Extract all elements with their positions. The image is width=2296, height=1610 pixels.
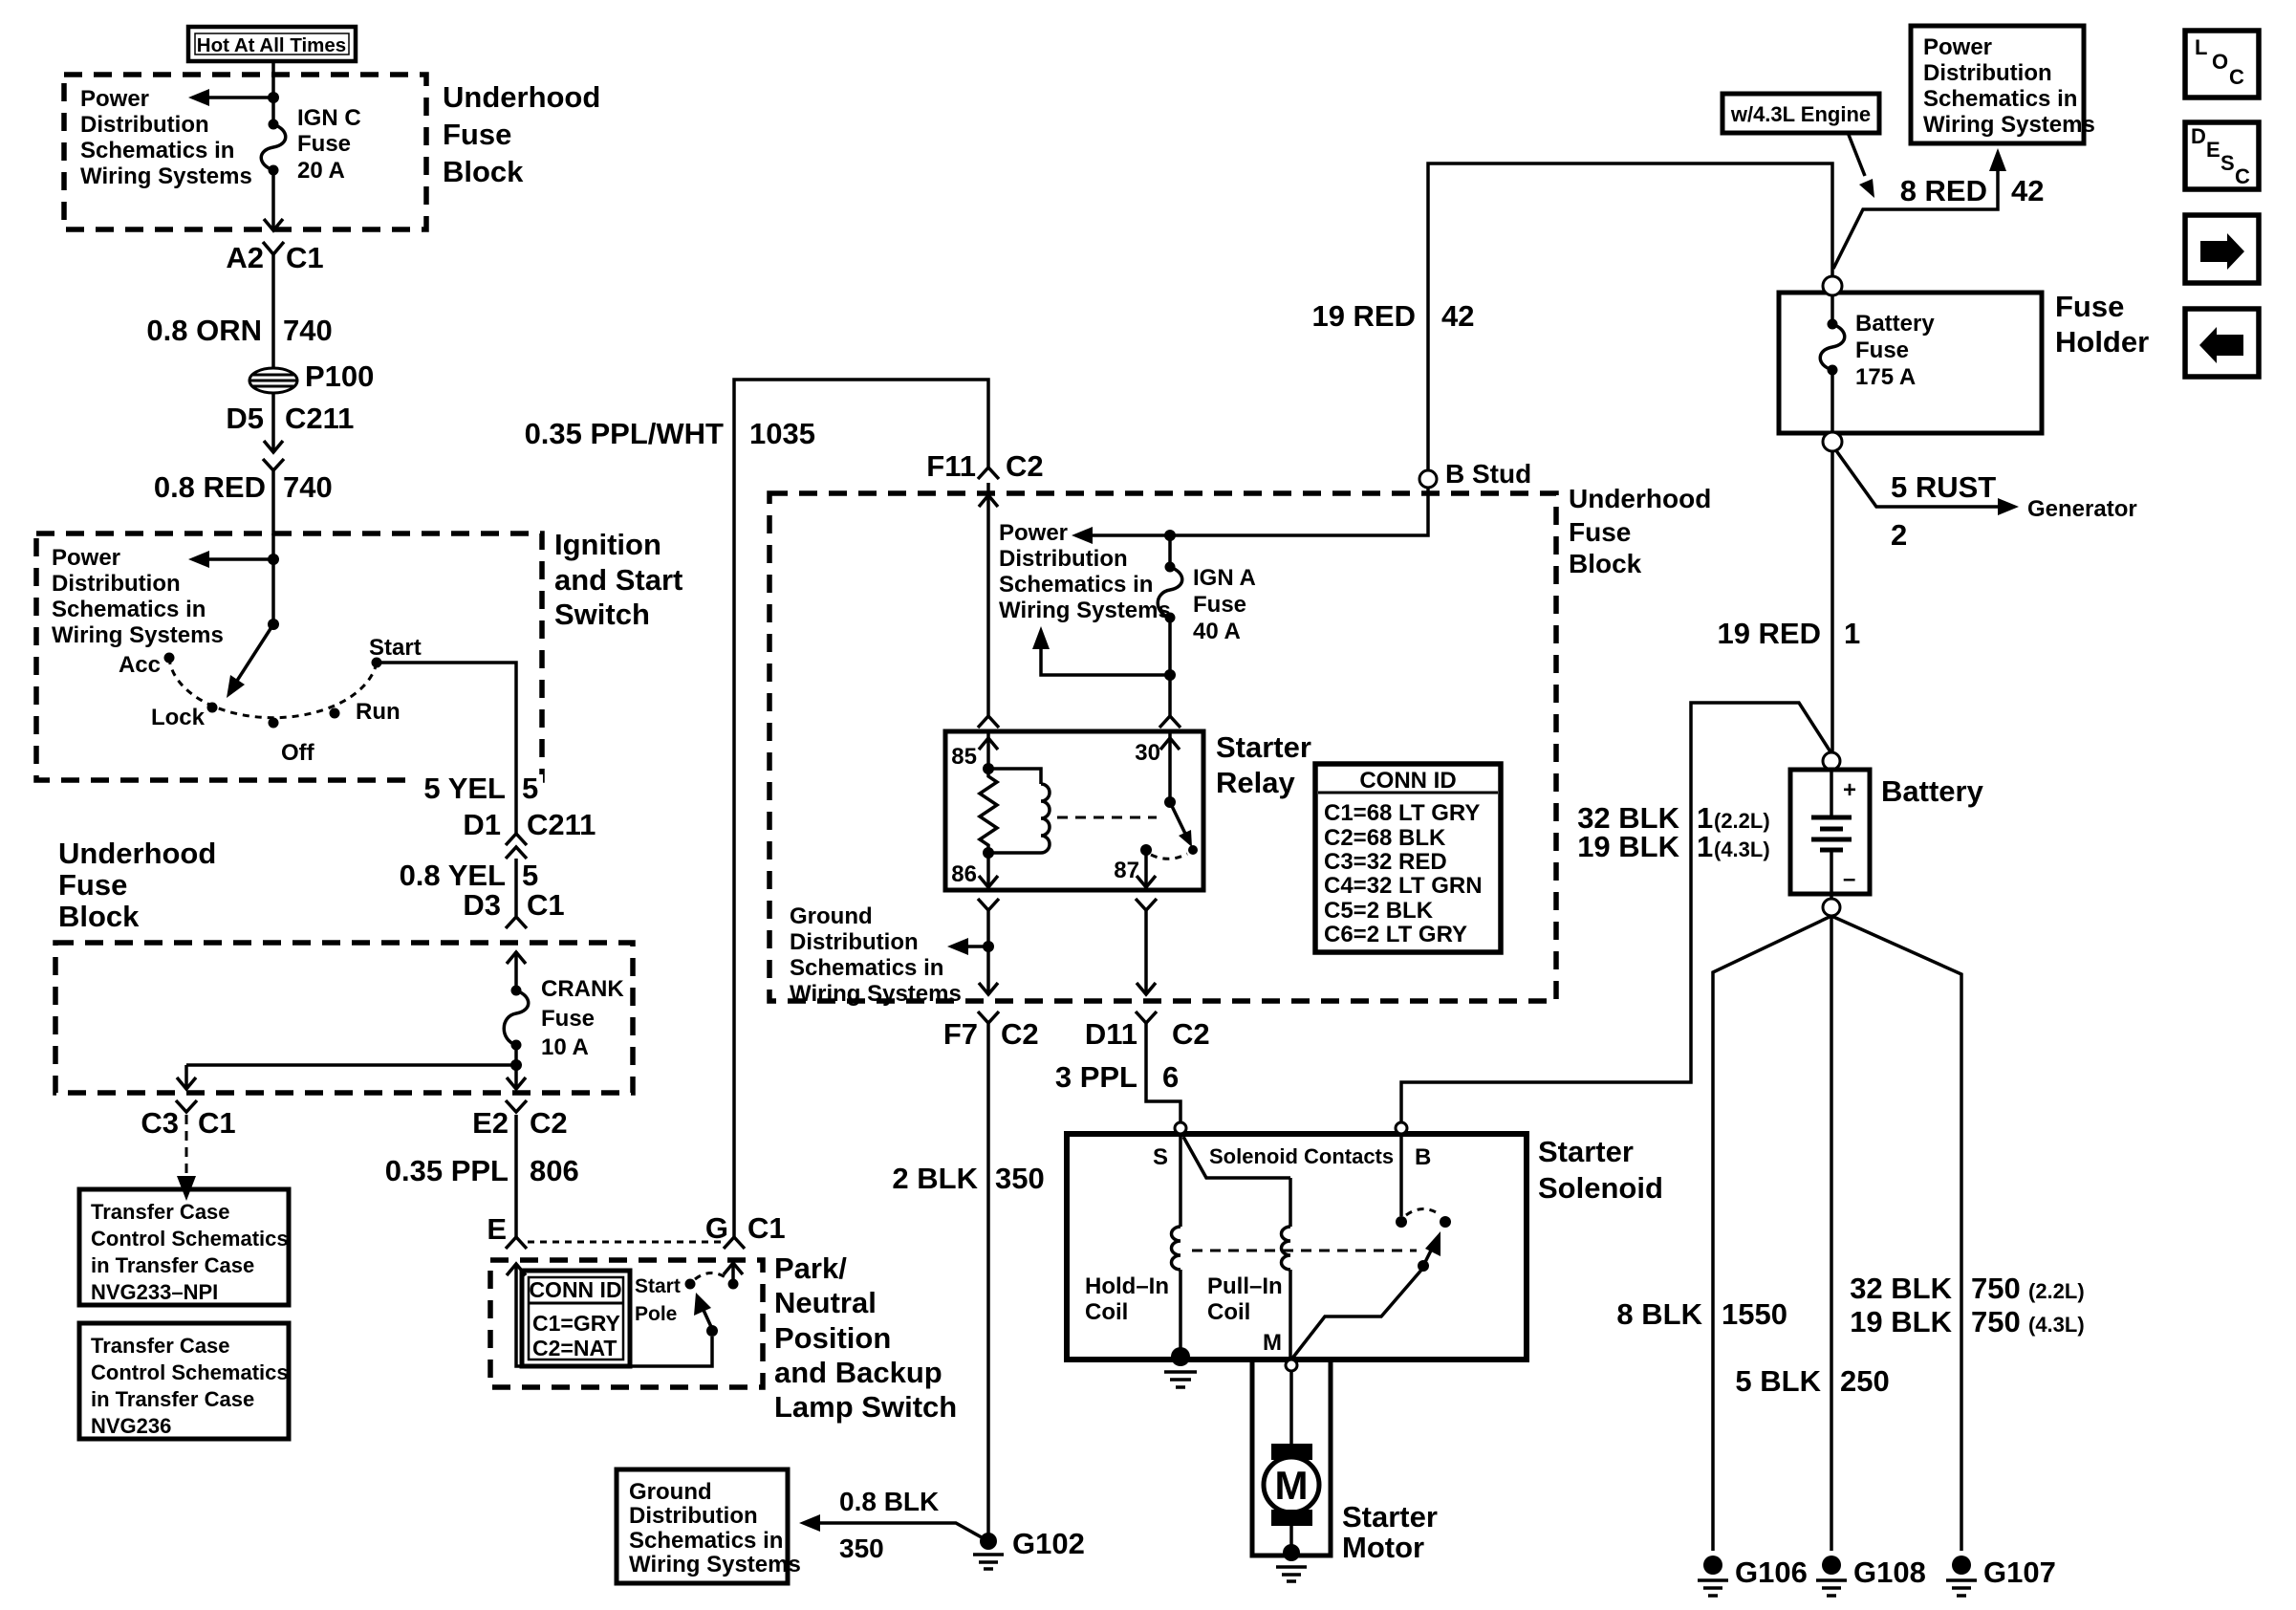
svg-text:Run: Run	[356, 699, 401, 725]
wire 3 PPL 6	[1055, 1023, 1180, 1123]
node: solenoid contact (right)	[1440, 1216, 1451, 1228]
svg-text:Wiring Systems: Wiring Systems	[629, 1552, 801, 1577]
svg-text:8 RED: 8 RED	[1900, 174, 1987, 207]
svg-text:P100: P100	[305, 359, 374, 393]
Battery box	[1790, 770, 1870, 894]
wire 87 to D11	[1144, 910, 1148, 994]
label Start Pole	[635, 1275, 681, 1325]
svg-text:87: 87	[1114, 858, 1139, 883]
arrow down at block edge (right branch)	[507, 1077, 526, 1089]
svg-text:Wiring Systems: Wiring Systems	[1923, 112, 2095, 138]
svg-text:Distribution: Distribution	[999, 546, 1128, 572]
svg-text:IGN C: IGN C	[297, 105, 361, 131]
svg-text:Underhood: Underhood	[443, 80, 600, 114]
svg-text:C4=32 LT GRN: C4=32 LT GRN	[1324, 873, 1483, 899]
svg-text:Transfer Case: Transfer Case	[91, 1334, 230, 1358]
svg-text:Start: Start	[635, 1275, 681, 1297]
svg-text:5 RUST: 5 RUST	[1891, 470, 1996, 504]
starter motor symbol	[1264, 1444, 1319, 1526]
svg-text:Distribution: Distribution	[80, 112, 209, 138]
svg-text:C1=68 LT GRY: C1=68 LT GRY	[1324, 800, 1480, 826]
svg-text:0.35 PPL/WHT: 0.35 PPL/WHT	[525, 417, 724, 450]
connector F7 C2	[943, 1012, 1039, 1051]
label Fuse Holder	[2055, 290, 2149, 359]
Fuse Holder box	[1779, 293, 2042, 433]
solenoid hold-in coil	[1085, 1134, 1180, 1354]
connector chevron below relay 86	[978, 899, 999, 910]
svg-text:Start: Start	[369, 635, 422, 661]
Underhood Fuse Block (lower-left) dashed box	[55, 943, 633, 1093]
Transfer Case reference box NVG236	[79, 1323, 289, 1439]
svg-text:Fuse: Fuse	[1193, 592, 1246, 618]
svg-text:NVG236: NVG236	[91, 1414, 171, 1438]
G contact arrow up	[724, 1263, 743, 1284]
wire 19 RED 1	[1717, 451, 1860, 752]
arrow at block edge (87 wire)	[1137, 983, 1156, 994]
svg-text:Neutral: Neutral	[774, 1286, 877, 1319]
wire from IGN A fuse	[1168, 618, 1172, 716]
node: moving contact pivot	[706, 1325, 718, 1337]
svg-text:Hold–In: Hold–In	[1085, 1273, 1169, 1299]
wire E into switch with up arrow	[507, 1264, 712, 1366]
svg-text:C5=2 BLK: C5=2 BLK	[1324, 898, 1434, 924]
svg-text:Distribution: Distribution	[1923, 60, 2052, 86]
svg-text:Schematics in: Schematics in	[999, 572, 1153, 598]
svg-text:Fuse: Fuse	[1569, 517, 1631, 547]
svg-text:Wiring Systems: Wiring Systems	[52, 622, 224, 648]
svg-text:Fuse: Fuse	[2055, 290, 2124, 323]
relay terminal 86	[951, 853, 998, 887]
relay resistor	[980, 769, 997, 853]
wire 0.35 PPL 806	[385, 1115, 579, 1237]
node Start	[369, 635, 422, 668]
svg-text:Underhood: Underhood	[58, 837, 216, 870]
dashed travel arc (relay)	[1151, 854, 1187, 859]
connector D5 C211	[226, 393, 354, 470]
svg-text:C2: C2	[1001, 1017, 1039, 1051]
svg-text:D3: D3	[463, 888, 501, 922]
svg-text:C211: C211	[527, 808, 596, 841]
svg-text:Motor: Motor	[1342, 1531, 1424, 1564]
svg-text:C2: C2	[1006, 449, 1044, 483]
svg-text:Off: Off	[281, 740, 315, 766]
solenoid actuation dashed link	[1192, 1250, 1417, 1252]
fuse IGN A 40 A	[1158, 535, 1256, 644]
wire from crank fuse to outputs	[186, 1045, 516, 1088]
svg-text:Power: Power	[1923, 34, 1992, 60]
fuse IGN C 20 A	[261, 105, 360, 184]
wire from B stud to IGN A feed	[1090, 488, 1428, 535]
switch blade arrow (park switch)	[694, 1293, 712, 1329]
svg-text:Wiring Systems: Wiring Systems	[80, 163, 252, 189]
sidebar button LOC	[2185, 31, 2259, 98]
node: crank fuse output junction	[510, 1059, 522, 1071]
svg-text:Park/: Park/	[774, 1251, 847, 1285]
svg-text:Starter: Starter	[1538, 1135, 1634, 1168]
svg-text:Coil: Coil	[1085, 1299, 1128, 1325]
label Underhood Fuse Block (middle)	[1569, 484, 1711, 578]
svg-text:(4.3L): (4.3L)	[1714, 838, 1770, 861]
label Starter Relay	[1216, 730, 1311, 799]
svg-text:F11: F11	[926, 449, 976, 483]
node: G contact	[728, 1279, 739, 1290]
label Underhood Fuse Block (left)	[58, 837, 216, 933]
sidebar button next arrow	[2185, 215, 2259, 283]
svg-text:5: 5	[522, 772, 538, 805]
svg-text:Fuse: Fuse	[541, 1006, 595, 1032]
svg-text:86: 86	[951, 861, 977, 887]
svg-text:E2: E2	[472, 1106, 509, 1140]
reference arrow to power distribution (left)	[188, 89, 273, 106]
svg-text:0.8 ORN: 0.8 ORN	[146, 314, 262, 347]
svg-text:Fuse: Fuse	[1855, 337, 1909, 363]
relay actuation dashed link	[1057, 816, 1157, 819]
node: solenoid fixed contact (B)	[1396, 1216, 1407, 1228]
svg-text:Transfer Case: Transfer Case	[91, 1200, 230, 1224]
node: relay coil top junction	[983, 763, 994, 774]
wire 2 BLK 350	[892, 1023, 1044, 1535]
arrow down at block edge (left branch)	[177, 1077, 196, 1089]
relay terminal 85	[951, 716, 999, 770]
w/4.3L Engine box	[1722, 94, 1879, 133]
svg-text:19 BLK: 19 BLK	[1577, 830, 1679, 863]
svg-text:G106: G106	[1735, 1556, 1808, 1589]
wire M to motor	[1289, 1371, 1293, 1446]
svg-text:Power: Power	[999, 520, 1068, 546]
svg-text:Power: Power	[52, 545, 120, 571]
reference arrow up to power distribution note	[1032, 626, 1170, 675]
svg-text:and Start: and Start	[554, 563, 682, 597]
arrow at block edge (86 wire)	[979, 983, 998, 994]
svg-text:40 A: 40 A	[1193, 619, 1241, 644]
svg-text:32 BLK: 32 BLK	[1850, 1272, 1952, 1305]
connector A2 C1	[226, 241, 323, 274]
node Acc	[119, 652, 175, 678]
svg-text:750: 750	[1971, 1305, 2021, 1338]
note Power Distribution Schematics (middle box)	[999, 520, 1171, 623]
wire into ignition switch	[271, 533, 275, 624]
solenoid moving blade arrow	[1418, 1231, 1440, 1272]
node: switch pivot junction	[268, 619, 279, 630]
svg-text:w/4.3L Engine: w/4.3L Engine	[1730, 102, 1871, 126]
svg-text:Block: Block	[443, 155, 524, 188]
wire B terminal riser to battery	[1401, 703, 1831, 1123]
svg-text:Ignition: Ignition	[554, 528, 661, 561]
wire M terminal to blade	[1291, 1268, 1423, 1360]
svg-text:Coil: Coil	[1207, 1299, 1250, 1325]
svg-text:30: 30	[1135, 740, 1160, 766]
svg-text:CONN ID: CONN ID	[1359, 768, 1456, 794]
svg-text:8 BLK: 8 BLK	[1616, 1297, 1702, 1331]
svg-text:750: 750	[1971, 1272, 2021, 1305]
w/4.3L pointer arrow	[1849, 135, 1874, 198]
svg-text:G102: G102	[1012, 1527, 1085, 1560]
svg-text:175 A: 175 A	[1855, 364, 1916, 390]
node: fuse holder bottom terminal	[1823, 432, 1842, 451]
svg-text:42: 42	[2011, 174, 2044, 207]
svg-text:Solenoid Contacts: Solenoid Contacts	[1209, 1144, 1394, 1168]
connector chevron below relay 87	[1136, 899, 1157, 910]
svg-text:C1: C1	[527, 888, 565, 922]
Underhood Fuse Block (middle) dashed box	[769, 493, 1556, 1001]
svg-text:C2: C2	[530, 1106, 568, 1140]
svg-text:S: S	[2220, 151, 2235, 175]
svg-text:C3=32 RED: C3=32 RED	[1324, 849, 1447, 875]
wire 0.35 PPL/WHT 1035 (long riser)	[525, 380, 988, 1237]
svg-text:E: E	[2206, 138, 2220, 162]
svg-text:Position: Position	[774, 1321, 891, 1355]
connector D1 C211 (double chevron)	[463, 808, 596, 859]
wire 0.8 BLK 350 to G102	[799, 1487, 988, 1563]
svg-text:740: 740	[283, 470, 333, 504]
node: solenoid B terminal	[1396, 1122, 1431, 1170]
svg-text:Solenoid: Solenoid	[1538, 1171, 1663, 1205]
svg-text:Relay: Relay	[1216, 766, 1295, 799]
svg-text:(2.2L): (2.2L)	[2028, 1279, 2085, 1303]
switch actuator arrow toward Lock	[227, 624, 273, 698]
wire 32 BLK 1 / 19 BLK 1 labels	[1577, 801, 1770, 863]
node: junction feed	[268, 554, 279, 565]
svg-text:O: O	[2212, 50, 2228, 74]
wire 5 YEL 5	[417, 772, 543, 805]
svg-text:C2=NAT: C2=NAT	[532, 1336, 617, 1360]
svg-text:CRANK: CRANK	[541, 976, 624, 1002]
svg-text:Power: Power	[80, 86, 149, 112]
svg-text:and Backup: and Backup	[774, 1356, 942, 1389]
node: fuse holder top terminal	[1823, 276, 1842, 295]
svg-text:Lamp Switch: Lamp Switch	[774, 1390, 957, 1424]
solenoid pull-in coil	[1207, 1178, 1290, 1360]
svg-text:D1: D1	[463, 808, 501, 841]
fuse CRANK 10 A	[504, 976, 624, 1060]
ground G107	[1946, 1556, 2056, 1596]
CONN ID box (park/neutral)	[522, 1271, 630, 1366]
svg-text:C1=GRY: C1=GRY	[532, 1311, 620, 1336]
svg-text:Distribution: Distribution	[790, 929, 919, 955]
svg-text:Pull–In: Pull–In	[1207, 1273, 1283, 1299]
svg-text:1: 1	[1844, 617, 1860, 650]
relay terminal 30	[1135, 716, 1180, 802]
svg-text:Fuse: Fuse	[297, 131, 351, 157]
label Starter Motor	[1342, 1500, 1438, 1564]
Park/Neutral Position and Backup Lamp Switch dashed box	[490, 1260, 763, 1387]
svg-text:–: –	[1843, 866, 1855, 892]
svg-text:Schematics in: Schematics in	[52, 597, 206, 622]
relay terminal 87	[1114, 850, 1156, 887]
fuse Battery Fuse 175 A	[1820, 295, 1935, 432]
reference arrow to power distribution (middle box)	[1072, 527, 1093, 544]
node: junction on B stud feed	[1164, 530, 1176, 541]
connector D11 C2	[1085, 1012, 1210, 1051]
svg-text:3 PPL: 3 PPL	[1055, 1060, 1137, 1094]
wire 8 BLK 1550	[1616, 1297, 1787, 1331]
reference arrow to ground distribution note	[947, 938, 988, 955]
svg-text:Schematics in: Schematics in	[1923, 86, 2077, 112]
node: solenoid M terminal	[1263, 1330, 1297, 1371]
svg-text:G107: G107	[1983, 1556, 2056, 1589]
svg-text:85: 85	[951, 744, 977, 770]
note Power Distribution Schematics (top-left)	[80, 86, 252, 189]
node: IGN A output junction	[1164, 669, 1176, 681]
svg-text:C2=68 BLK: C2=68 BLK	[1324, 825, 1446, 851]
svg-text:Control Schematics: Control Schematics	[91, 1360, 289, 1384]
svg-text:B Stud: B Stud	[1445, 459, 1531, 489]
svg-text:Generator: Generator	[2027, 496, 2137, 522]
svg-text:Ground: Ground	[790, 903, 873, 929]
sidebar button prev arrow	[2185, 309, 2259, 377]
Underhood Fuse Block (top-left) dashed box	[64, 75, 426, 229]
svg-text:B: B	[1415, 1144, 1431, 1170]
wire 8 RED 42 with up arrow	[1833, 148, 2044, 269]
wire 5 BLK 250	[1735, 1364, 1889, 1398]
svg-text:C6=2 LT GRY: C6=2 LT GRY	[1324, 922, 1467, 947]
pin G C1	[705, 1211, 786, 1249]
node: relay switch pivot on 30	[1164, 796, 1176, 808]
svg-text:Wiring Systems: Wiring Systems	[790, 981, 962, 1007]
ground at starter motor	[1276, 1526, 1307, 1581]
svg-text:250: 250	[1840, 1364, 1890, 1398]
wire: fuse output with arrow at block edge	[264, 170, 283, 230]
svg-text:2: 2	[1891, 518, 1907, 552]
svg-text:Battery: Battery	[1881, 774, 1984, 808]
svg-text:2 BLK: 2 BLK	[892, 1162, 978, 1195]
wire 5 RUST 2 to Generator	[1835, 449, 2137, 552]
svg-text:C1: C1	[286, 241, 324, 274]
svg-text:Block: Block	[1569, 549, 1642, 578]
svg-text:(2.2L): (2.2L)	[1714, 809, 1770, 833]
svg-text:M: M	[1275, 1463, 1309, 1508]
svg-text:Hot At All Times: Hot At All Times	[197, 34, 346, 56]
wire 0.8 ORN 740	[146, 254, 332, 369]
wire: hot feed from Hot At All Times into fuse block	[271, 59, 275, 124]
svg-text:Starter: Starter	[1216, 730, 1311, 764]
svg-text:0.8 RED: 0.8 RED	[154, 470, 266, 504]
switch position arc (dashed)	[169, 658, 377, 718]
ground at hold-in coil	[1164, 1347, 1197, 1387]
svg-text:19 RED: 19 RED	[1311, 299, 1416, 333]
label Starter Solenoid	[1538, 1135, 1663, 1205]
svg-text:Wiring Systems: Wiring Systems	[999, 598, 1171, 623]
ground G108	[1816, 1556, 1926, 1596]
wire entering crank fuse with up arrow	[507, 951, 526, 990]
svg-text:E: E	[487, 1212, 507, 1246]
svg-text:Schematics in: Schematics in	[80, 138, 234, 163]
svg-text:350: 350	[839, 1534, 884, 1563]
svg-text:1: 1	[1697, 830, 1713, 863]
connector line E-G (thin dashed)	[528, 1241, 723, 1244]
svg-text:D: D	[2191, 124, 2206, 148]
svg-text:D5: D5	[226, 402, 264, 435]
svg-text:Holder: Holder	[2055, 325, 2149, 359]
wire 32 BLK 750 / 19 BLK 750	[1850, 1272, 2085, 1338]
node: battery positive terminal	[1823, 752, 1840, 770]
connector C3 C1	[141, 1100, 235, 1140]
label Ignition and Start Switch	[554, 528, 682, 631]
svg-text:D11: D11	[1085, 1017, 1137, 1051]
svg-text:Lock: Lock	[151, 705, 206, 730]
svg-text:in Transfer Case: in Transfer Case	[91, 1387, 254, 1411]
svg-text:5: 5	[522, 859, 538, 892]
svg-text:F7: F7	[943, 1017, 978, 1051]
connector E2 C2	[472, 1100, 568, 1140]
sidebar button DESC	[2185, 122, 2259, 189]
relay coil	[988, 769, 1050, 853]
Power Distribution Schematics box (top right)	[1911, 26, 2095, 143]
svg-text:Battery: Battery	[1855, 311, 1935, 337]
svg-text:Schematics in: Schematics in	[629, 1528, 783, 1554]
svg-text:NVG233–NPI: NVG233–NPI	[91, 1280, 218, 1304]
node: start pole contact	[685, 1279, 696, 1290]
svg-text:Pole: Pole	[635, 1303, 677, 1325]
svg-text:740: 740	[283, 314, 333, 347]
ground G102	[973, 1527, 1085, 1569]
ground G106	[1698, 1556, 1808, 1596]
svg-text:5 BLK: 5 BLK	[1735, 1364, 1821, 1398]
svg-text:Distribution: Distribution	[52, 571, 181, 597]
svg-text:20 A: 20 A	[297, 158, 345, 184]
svg-text:350: 350	[995, 1162, 1045, 1195]
label Park/Neutral Position and Backup Lamp Switch	[774, 1251, 957, 1424]
node: relay 87 contact	[1140, 844, 1152, 856]
connector D3 C1	[463, 888, 564, 928]
svg-text:C1: C1	[198, 1106, 236, 1140]
svg-text:1035: 1035	[749, 417, 815, 450]
svg-text:Acc: Acc	[119, 652, 161, 678]
wire 0.8 YEL 5	[400, 859, 539, 916]
wire F11 into block with up arrow	[979, 483, 998, 716]
svg-text:C: C	[2235, 164, 2250, 188]
node Run	[330, 699, 401, 725]
svg-text:G108: G108	[1853, 1556, 1926, 1589]
Transfer Case reference box NVG233-NPI	[79, 1189, 289, 1305]
node B Stud	[1311, 163, 1832, 489]
svg-text:Schematics in: Schematics in	[790, 955, 943, 981]
svg-text:+: +	[1843, 777, 1856, 803]
Starter Relay box	[945, 731, 1203, 890]
svg-text:19 RED: 19 RED	[1717, 617, 1821, 650]
node: relay coil bottom junction	[983, 847, 994, 859]
svg-text:6: 6	[1162, 1060, 1179, 1094]
node Off	[269, 718, 315, 767]
svg-text:G: G	[705, 1211, 728, 1245]
wire B terminal to fixed contact	[1399, 1134, 1403, 1216]
svg-text:19 BLK: 19 BLK	[1850, 1305, 1952, 1338]
svg-text:Starter: Starter	[1342, 1500, 1438, 1534]
dashed wire to transfer case reference	[177, 1115, 196, 1201]
dashed travel arc (park switch)	[695, 1273, 728, 1280]
svg-text:C1: C1	[747, 1211, 786, 1245]
svg-text:42: 42	[1441, 299, 1474, 333]
svg-text:Fuse: Fuse	[443, 118, 511, 151]
svg-text:S: S	[1153, 1144, 1168, 1170]
wire 86 to F7	[986, 910, 990, 994]
svg-text:C: C	[2229, 65, 2244, 89]
dashed travel arc (solenoid)	[1406, 1209, 1440, 1216]
svg-text:Underhood: Underhood	[1569, 484, 1711, 513]
pin E	[487, 1212, 527, 1249]
reference arrow to power distribution (ignition box)	[188, 551, 273, 568]
svg-text:(4.3L): (4.3L)	[2028, 1313, 2085, 1337]
svg-text:0.8 YEL: 0.8 YEL	[400, 859, 506, 892]
note Ground Distribution Schematics (middle box)	[790, 903, 962, 1007]
svg-text:10 A: 10 A	[541, 1034, 589, 1060]
svg-text:Fuse: Fuse	[58, 868, 127, 902]
svg-text:M: M	[1263, 1330, 1282, 1356]
CONN ID table (underhood fuse block)	[1315, 764, 1501, 952]
svg-text:in Transfer Case: in Transfer Case	[91, 1253, 254, 1277]
battery cell symbol	[1811, 770, 1856, 899]
svg-text:5 YEL: 5 YEL	[423, 772, 506, 805]
